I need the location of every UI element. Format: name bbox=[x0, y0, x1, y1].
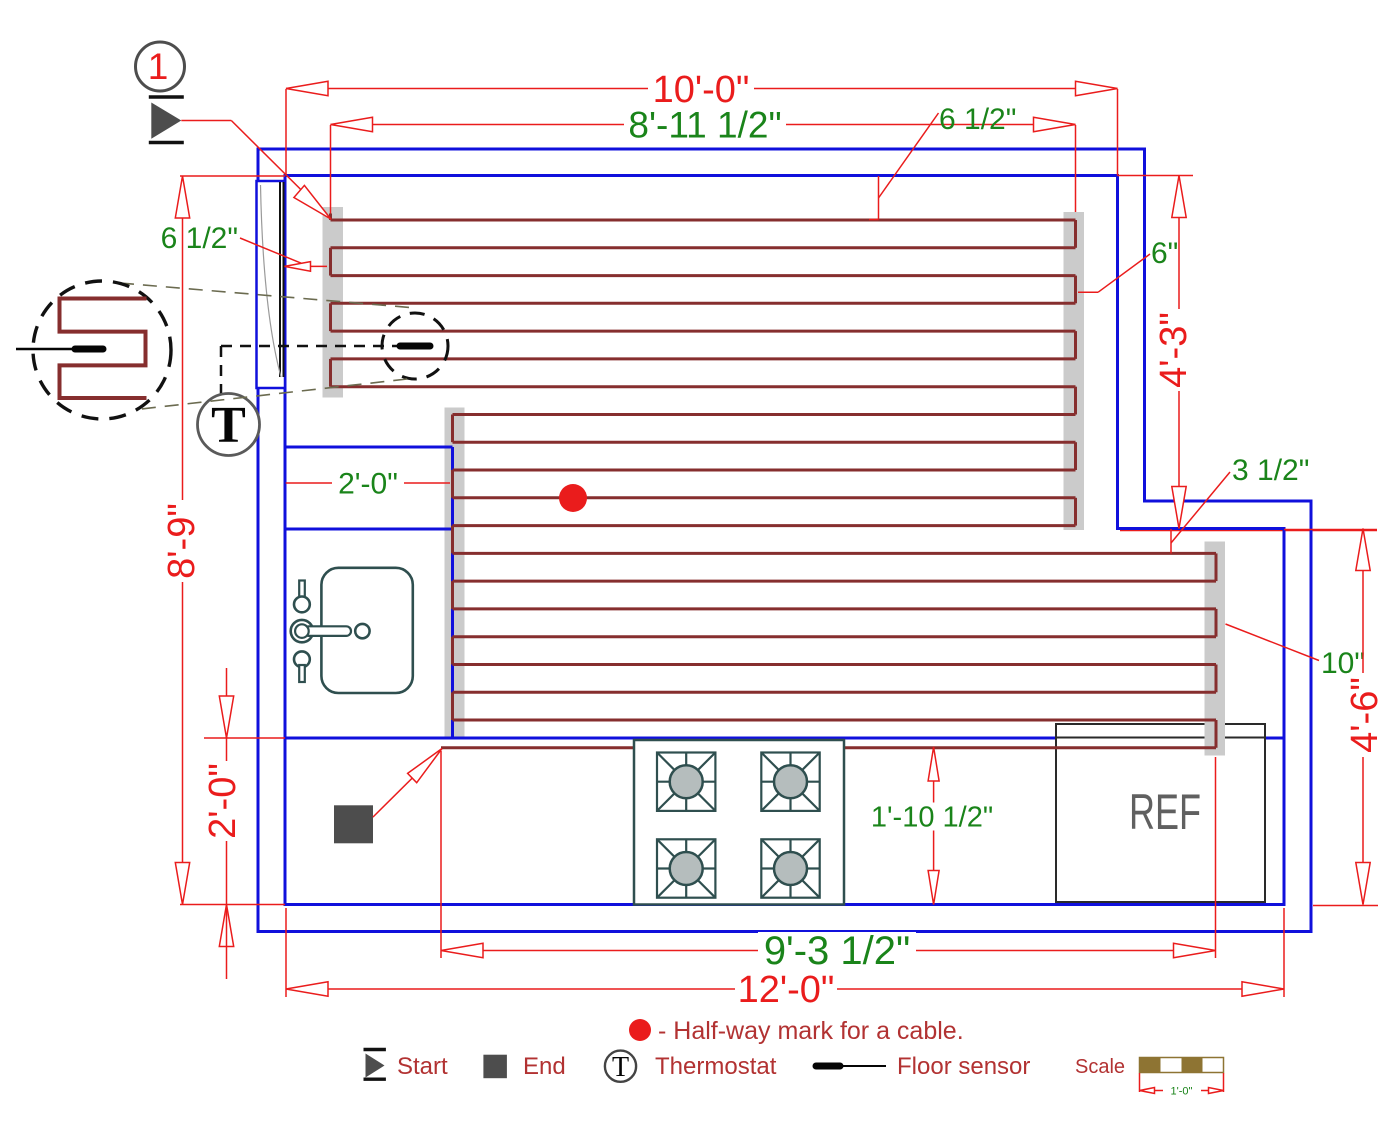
cable fixing strip mid-left bbox=[445, 408, 465, 737]
svg-text:Scale: Scale bbox=[1075, 1056, 1125, 1078]
dimension 4'-3" right bbox=[1178, 176, 1180, 529]
svg-text:- Half-way mark for a cable.: - Half-way mark for a cable. bbox=[658, 1017, 964, 1045]
projection line bottom bbox=[119, 378, 416, 412]
heating cable serpentine bbox=[329, 214, 332, 221]
wall outline (outer+inner) bbox=[258, 149, 1311, 932]
svg-text:T: T bbox=[211, 397, 246, 454]
dimension 2'-0" left bbox=[226, 668, 228, 738]
dimension 10'-0" top bbox=[286, 88, 1118, 90]
svg-text:1'-0": 1'-0" bbox=[1171, 1086, 1193, 1098]
svg-text:T: T bbox=[612, 1052, 629, 1083]
start leader bbox=[181, 120, 231, 122]
dimension 12'-0" bottom bbox=[286, 988, 1284, 990]
svg-text:6 1/2": 6 1/2" bbox=[939, 103, 1016, 136]
label 3 1/2" bbox=[1171, 472, 1230, 543]
label 10" right bbox=[1226, 624, 1320, 661]
legend end bbox=[483, 1055, 507, 1079]
label 6 1/2" top offset bbox=[879, 113, 939, 198]
dimension 9'-3 1/2" bottom bbox=[441, 950, 1216, 952]
svg-text:8'-9": 8'-9" bbox=[161, 503, 203, 579]
svg-text:Floor sensor: Floor sensor bbox=[897, 1053, 1030, 1080]
left counter with closet bbox=[285, 446, 453, 449]
door swing arc bbox=[261, 185, 282, 377]
svg-text:2'-0": 2'-0" bbox=[338, 468, 398, 501]
dimension 1'-10 1/2" bbox=[933, 747, 935, 905]
half-way mark dot bbox=[559, 484, 587, 512]
door opening bbox=[257, 181, 286, 388]
detail callout circle 1 bbox=[136, 42, 185, 91]
svg-text:2'-0": 2'-0" bbox=[202, 763, 244, 839]
svg-text:9'-3 1/2": 9'-3 1/2" bbox=[764, 929, 910, 973]
svg-text:6": 6" bbox=[1151, 237, 1178, 270]
detail circle small bbox=[382, 313, 448, 379]
projection line top bbox=[120, 283, 416, 308]
legend floor sensor bbox=[816, 1063, 840, 1070]
svg-text:Thermostat: Thermostat bbox=[655, 1053, 777, 1080]
door leaf bbox=[279, 182, 281, 377]
svg-text:6 1/2": 6 1/2" bbox=[161, 222, 238, 255]
svg-text:3 1/2": 3 1/2" bbox=[1232, 454, 1309, 487]
svg-text:1: 1 bbox=[148, 46, 169, 87]
refrigerator REF box bbox=[1056, 724, 1265, 902]
svg-text:8'-11 1/2": 8'-11 1/2" bbox=[628, 104, 781, 145]
legend half-way bbox=[629, 1019, 651, 1041]
svg-text:1'-10 1/2": 1'-10 1/2" bbox=[871, 802, 993, 834]
cable fixing strip upper-right bbox=[1064, 212, 1085, 530]
svg-text:4'-6": 4'-6" bbox=[1344, 677, 1386, 753]
dimension 2'-0" closet bbox=[286, 482, 450, 484]
thermostat sensor lead bbox=[220, 346, 223, 394]
counter front edge bbox=[285, 737, 1284, 740]
cable fixing strip lower-right bbox=[1205, 542, 1226, 756]
label 6" right bbox=[1078, 291, 1098, 293]
cable fixing strip upper-left bbox=[323, 207, 344, 398]
thermostat T symbol bbox=[198, 394, 260, 456]
stove with 4 burners bbox=[634, 740, 844, 905]
end leader bbox=[373, 749, 442, 818]
floor sensor tip bbox=[400, 343, 430, 350]
detail circle big (cable turn + sensor) bbox=[33, 281, 171, 419]
legend start bbox=[364, 1048, 386, 1051]
end marker bbox=[334, 805, 373, 843]
svg-text:REF: REF bbox=[1129, 784, 1201, 840]
svg-text:4'-3": 4'-3" bbox=[1153, 312, 1195, 388]
dimension 8'-11 1/2" top bbox=[331, 124, 1076, 126]
legend thermostat bbox=[605, 1051, 636, 1082]
dimension 8'-9" left bbox=[182, 176, 184, 905]
start marker bbox=[149, 95, 184, 99]
svg-text:End: End bbox=[523, 1053, 566, 1080]
extension line at step bbox=[1120, 530, 1377, 532]
svg-text:Start: Start bbox=[397, 1053, 448, 1080]
svg-text:12'-0": 12'-0" bbox=[738, 969, 835, 1011]
dimension 4'-6" right bbox=[1362, 529, 1364, 905]
kitchen sink with faucet bbox=[321, 568, 412, 693]
label 6 1/2" left offset bbox=[240, 238, 307, 266]
